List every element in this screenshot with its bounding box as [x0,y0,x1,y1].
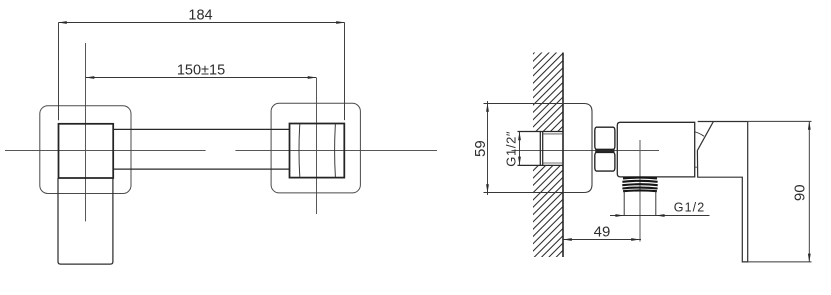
svg-text:150±15: 150±15 [177,62,225,78]
svg-text:49: 49 [594,224,611,241]
svg-text:184: 184 [188,8,212,24]
svg-text:G1/2: G1/2 [674,201,706,215]
svg-text:59: 59 [472,140,489,157]
svg-text:G1/2″: G1/2″ [504,131,519,167]
svg-text:90: 90 [791,184,808,201]
